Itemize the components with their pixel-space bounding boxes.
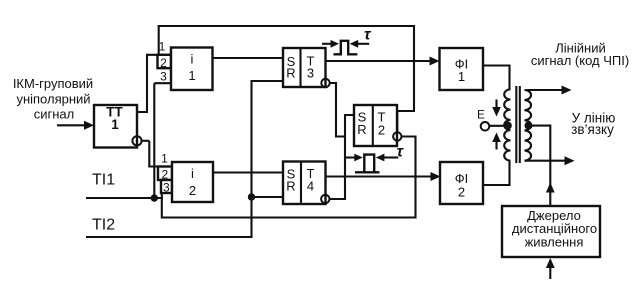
svg-text:R: R: [357, 122, 366, 137]
junction dot T4 R tap: [248, 193, 255, 200]
wire TT1 inv riser to i2 pin1: [148, 141, 150, 167]
wire T3 inverted output: [330, 83, 345, 137]
inverter bubble T2: [393, 132, 401, 140]
junction dot secondary tap: [525, 122, 533, 130]
wire T4 R input: [252, 196, 284, 198]
wire top feedback rail: [158, 25, 414, 27]
wire input arrow to TT1: [57, 121, 94, 130]
svg-text:2: 2: [160, 56, 167, 70]
junction dot primary centre tap: [504, 122, 512, 130]
wire FI1 output to transformer: [483, 66, 510, 91]
node output label line: [571, 110, 615, 137]
transformer primary winding: [504, 89, 510, 160]
svg-text:1: 1: [159, 40, 166, 54]
pulse shaper FI1: [440, 48, 484, 90]
wire TT1 Q riser to i1 pin2: [146, 54, 148, 113]
inverter bubble T3: [321, 79, 329, 87]
wire i1 pin1 line: [146, 54, 171, 56]
trigger T3: [283, 48, 326, 87]
svg-text:2: 2: [189, 183, 196, 198]
pin 2 box of i2: [158, 167, 172, 182]
trigger T4: [283, 162, 326, 205]
svg-text:і: і: [191, 166, 194, 181]
node E terminal: [477, 108, 489, 131]
wire T2 S input riser from T4 bubble: [329, 115, 354, 199]
svg-text:3: 3: [160, 70, 167, 84]
wire i1 pin3 line: [154, 82, 171, 84]
transformer core: [516, 86, 520, 163]
svg-text:сигнал: сигнал: [34, 106, 75, 121]
svg-text:2: 2: [378, 123, 385, 138]
svg-text:3: 3: [163, 181, 170, 195]
wire i2 output to T4 S: [213, 171, 283, 173]
AND gate i2: [172, 162, 213, 202]
svg-text:і: і: [191, 52, 194, 67]
AND gate i1: [171, 48, 213, 91]
wire bottom feedback rail: [162, 216, 416, 218]
svg-text:4: 4: [307, 179, 314, 194]
wire T3 Q output to FI1: [326, 60, 432, 62]
svg-text:τ: τ: [364, 26, 372, 43]
wire T3 R input: [252, 80, 284, 82]
arrow up annotation at E: [492, 133, 501, 150]
svg-text:τ: τ: [397, 143, 405, 160]
svg-text:зв’язку: зв’язку: [571, 122, 614, 137]
svg-text:3: 3: [307, 65, 314, 80]
wire riser i1 pin3 down to TI1: [153, 83, 155, 198]
wire secondary tap to power source: [529, 126, 555, 206]
wire power source bottom input arrow: [546, 258, 555, 279]
pin 2 box of i1: [158, 55, 172, 70]
wire feedback riser top rail to i1 pin1: [158, 25, 160, 55]
power source block: [502, 206, 600, 257]
wire T2 bubble to bottom rail: [401, 137, 415, 219]
wire i2 pin1 line: [148, 165, 172, 167]
wire secondary bottom lead output arrow: [525, 156, 575, 165]
node output label top: [531, 41, 629, 69]
svg-text:1: 1: [161, 152, 168, 166]
wire TT1 inverted output: [142, 140, 150, 142]
arrow down annotation at E: [492, 100, 501, 117]
svg-text:живлення: живлення: [525, 235, 584, 250]
pin 3 box of i2: [161, 180, 172, 195]
trigger T2: [354, 105, 397, 146]
wire top rail to T2 bubble: [397, 25, 414, 132]
svg-text:2: 2: [458, 185, 465, 200]
flip-flop TT1: [94, 105, 137, 148]
svg-text:ТІ2: ТІ2: [92, 217, 115, 234]
wire riser box3 to bottom rail: [161, 193, 163, 219]
wire secondary top lead output arrow: [525, 86, 572, 95]
svg-text:ІКМ-груповий: ІКМ-груповий: [13, 76, 93, 91]
svg-text:R: R: [286, 179, 295, 194]
wire TT1 Q output: [137, 111, 147, 113]
wire E to primary tap: [489, 125, 508, 127]
transformer secondary winding: [525, 90, 532, 161]
wire TI1 line: [86, 197, 163, 199]
svg-text:Е: Е: [477, 108, 485, 122]
svg-text:1: 1: [458, 69, 465, 84]
pulse width symbol tau 2: [346, 154, 398, 173]
junction dot TI1 / pin3 riser: [151, 194, 158, 201]
wire FI2 output to transformer: [483, 160, 510, 185]
inverter bubble TT1: [132, 136, 141, 145]
wire T4 Q output to FI2: [326, 175, 433, 177]
wire TI2 line: [86, 236, 252, 238]
svg-text:уніполярний: уніполярний: [16, 91, 90, 106]
wire TI2 riser (up to T3 R input): [250, 80, 252, 238]
svg-text:1: 1: [111, 117, 119, 132]
inverter bubble T4: [321, 195, 329, 203]
svg-text:1: 1: [188, 68, 195, 83]
pulse width symbol tau 1: [322, 40, 369, 54]
wire i1 output to T3 S: [213, 57, 284, 59]
svg-text:сигнал (код ЧПІ): сигнал (код ЧПІ): [531, 53, 629, 68]
node IKM input label: [13, 76, 93, 121]
svg-text:R: R: [286, 65, 295, 80]
pulse shaper FI2: [440, 162, 483, 204]
svg-text:ТІ1: ТІ1: [92, 172, 115, 189]
